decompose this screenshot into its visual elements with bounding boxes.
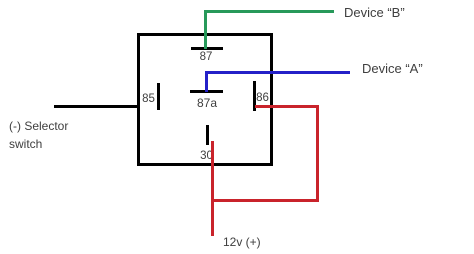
terminal 87 contact bar [191, 47, 223, 50]
terminal 85 contact bar [157, 83, 160, 110]
wire: red horizontal segment from terminal 86 [255, 105, 319, 108]
terminal 30 contact bar [206, 125, 209, 145]
wire: red bottom horizontal segment [211, 199, 319, 202]
label 12v (+) [223, 235, 261, 250]
label (-) Selector switch [9, 117, 89, 153]
wire: black, selector switch to terminal 85 [54, 105, 138, 108]
pin label 87 [195, 51, 217, 63]
wire: green vertical segment from terminal 87 [204, 10, 207, 49]
label Device "A" [362, 61, 423, 76]
wire: red vertical segment from terminal 30 to 12v [211, 141, 214, 236]
pin label 85 [141, 93, 156, 105]
wire: blue vertical segment from terminal 87a [205, 71, 208, 92]
terminal 86 contact bar [253, 81, 256, 111]
pin label 30 [199, 150, 214, 162]
terminal 87a contact bar [190, 90, 223, 93]
wire: red right vertical segment [316, 105, 319, 202]
wire: green horizontal segment to Device B [204, 10, 334, 13]
pin label 87a [192, 97, 222, 109]
wire: blue horizontal segment to Device A [205, 71, 350, 74]
relay K1 body [137, 33, 273, 166]
pin label 86 [255, 92, 270, 104]
label Device "B" [344, 5, 405, 20]
